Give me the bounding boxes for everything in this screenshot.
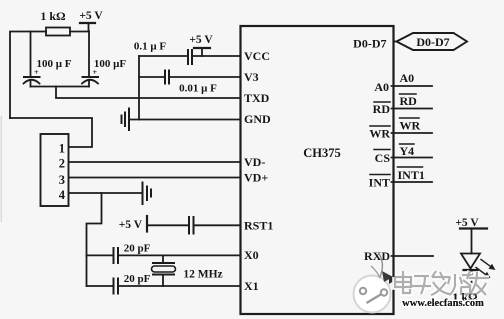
power +5V (VCC tap) [189,34,213,56]
wire WR [392,132,433,134]
svg-text:TXD: TXD [244,91,270,105]
connector J1 USB socket [41,134,69,206]
svg-text:20 pF: 20 pF [124,243,151,255]
ground (pin4) [143,183,152,205]
svg-text:A0: A0 [400,71,415,85]
wire A0 [392,85,433,87]
svg-text:+5 V: +5 V [79,10,103,22]
svg-text:VCC: VCC [244,49,270,63]
watermark logo (elecfans) [354,252,397,313]
wire jog to TXD line [56,87,243,99]
LED D1 [461,229,496,297]
svg-text:RD: RD [373,102,391,116]
svg-text:www.elecfans.com: www.elecfans.com [402,298,484,309]
svg-text:1: 1 [59,142,65,156]
svg-text:X1: X1 [244,279,259,293]
capacitor C5 on RST1 [147,217,243,234]
wire pin2 to VD- [69,161,243,163]
resistor R1 1kΩ [46,28,70,36]
capacitor C4 0.01uF on V3 [139,71,243,95]
svg-text:RST1: RST1 [244,219,273,233]
capacitor C3 0.1uF on VCC [134,41,243,65]
svg-text:0.01 μ F: 0.01 μ F [179,83,217,95]
capacitor C1 100uF (left electrolytic) [24,32,72,87]
svg-text:CS: CS [375,151,391,165]
label R1 value [40,9,66,23]
wire pin4 to ground [69,192,142,194]
svg-text:1 kΩ: 1 kΩ [40,9,66,23]
svg-text:Y4: Y4 [400,144,415,158]
svg-text:WR: WR [369,127,390,141]
power +5V (RST1) [119,216,147,232]
power +5V (LED) [455,217,487,229]
capacitor C7 20pF on X1 [87,273,244,294]
power +5V (top left) [79,10,103,32]
resistor R2 1kΩ label (partially hidden by watermark) [452,290,478,304]
wire capacitor loop bottom [31,86,90,88]
faint scan artifact line at left edge [1,116,2,222]
svg-text:VD-: VD- [244,155,265,169]
capacitor C6 20pF on X0 [87,243,244,264]
svg-text:A0: A0 [374,80,389,94]
ground (GND line) [122,109,244,131]
svg-text:0.1 μ F: 0.1 μ F [134,41,166,53]
svg-text:4: 4 [59,188,66,202]
svg-text:+5 V: +5 V [119,219,143,231]
svg-text:20 pF: 20 pF [124,273,151,285]
svg-text:+5 V: +5 V [189,34,213,46]
svg-text:X0: X0 [244,248,259,262]
wire pin4 branch down to crystal bus [87,193,102,286]
wire pin3 to VD+ [69,177,243,179]
svg-text:+5 V: +5 V [455,217,479,229]
wire resistor right to +5V junction [70,31,89,33]
svg-text:3: 3 [59,173,65,187]
svg-text:VD+: VD+ [244,171,268,185]
wire top loop: far-left vertical and top rail [10,32,46,119]
svg-text:100 μ F: 100 μ F [37,58,72,70]
overlines for RD WR CS INT inside chip [374,101,390,103]
wire decoupling bus vertical [138,56,140,120]
svg-text:WR: WR [400,119,421,133]
svg-text:D0-D7: D0-D7 [416,35,449,49]
crystal Y1 12MHz [152,255,223,286]
svg-text:RXD: RXD [364,249,390,263]
svg-text:D0-D7: D0-D7 [353,37,386,51]
svg-text:CH375: CH375 [303,146,341,160]
svg-text:INT1: INT1 [398,168,425,182]
wire RXD [392,255,434,257]
svg-text:RD: RD [400,94,418,108]
wire Y4 [392,157,433,159]
watermark Chinese text 电子发烧友 [395,271,489,295]
overlines right labels [400,93,417,95]
svg-text:GND: GND [244,112,271,126]
capacitor C2 100uF (right electrolytic) [82,32,126,87]
svg-text:2: 2 [59,157,65,171]
svg-text:12 MHz: 12 MHz [183,269,222,281]
LED emission arrows [481,260,492,268]
IC U1 CH375 [241,26,394,314]
net labels right side [398,71,425,182]
wire left loop bottom to pin1 riser [10,118,92,147]
svg-text:100 μF: 100 μF [94,58,126,70]
svg-text:V3: V3 [244,70,259,84]
wire INT1 [392,181,433,183]
wire RD [392,108,433,110]
svg-text:INT: INT [369,176,390,190]
bus arrow D0-D7 [394,33,468,50]
